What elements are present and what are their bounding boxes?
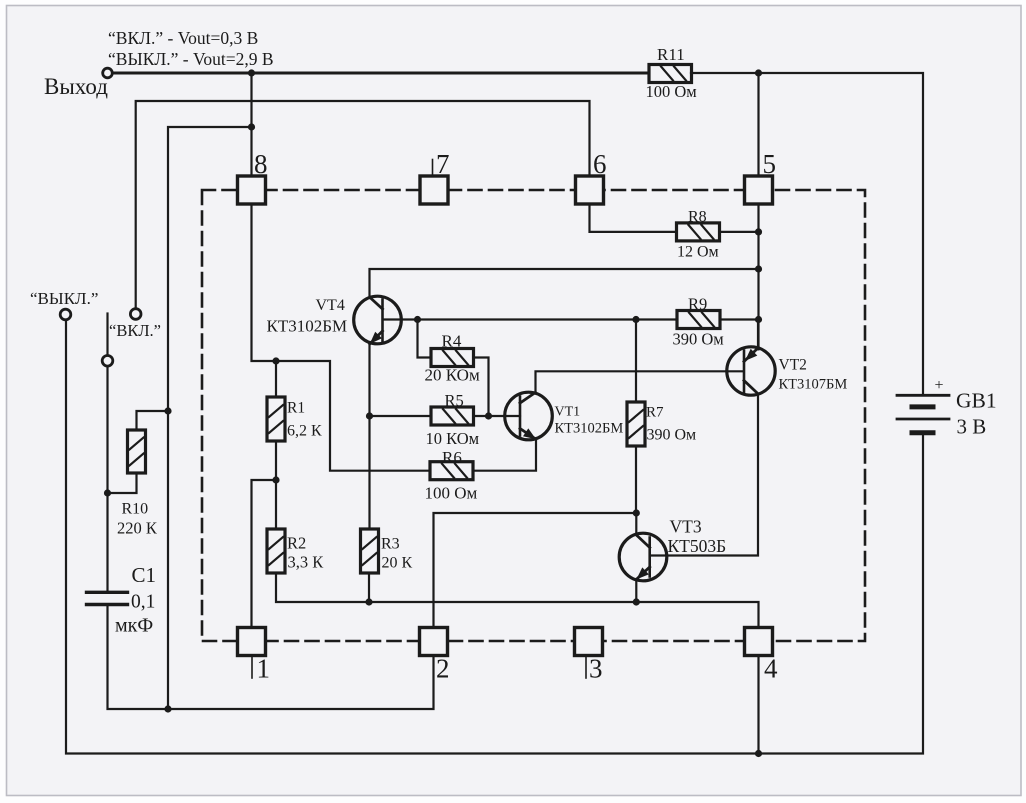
svg-text:+: + bbox=[935, 377, 944, 394]
svg-text:100 Ом: 100 Ом bbox=[646, 82, 698, 101]
transistor VT2 КТ3107БМ (PNP) bbox=[727, 347, 775, 395]
resistor R1 6,2 К vertical bbox=[267, 397, 285, 441]
wire VYKL2 stub above contact bbox=[106, 314, 108, 356]
svg-text:КТ3102БМ: КТ3102БМ bbox=[267, 317, 348, 336]
wire pin5 riser to output rail bbox=[757, 73, 759, 177]
resistor R4 20 КОм bbox=[431, 349, 474, 367]
output terminal circle bbox=[103, 68, 113, 78]
svg-text:“ВКЛ.”: “ВКЛ.” bbox=[109, 321, 161, 340]
wire R7 bottom riser to VT3 junction bbox=[635, 446, 637, 513]
wire R8 right to x=758 bbox=[720, 231, 759, 233]
resistor R10 220 К vertical bbox=[128, 430, 146, 473]
wire VT2 collector to VT3 base bbox=[650, 394, 758, 556]
svg-text:5: 5 bbox=[763, 149, 777, 179]
svg-text:2: 2 bbox=[436, 654, 450, 684]
wire R5 left from emitter riser bbox=[370, 415, 432, 417]
capacitor C1 0,1 мкФ bbox=[87, 591, 128, 594]
svg-text:R3: R3 bbox=[381, 536, 400, 553]
wire R5 right to VT1 base bbox=[474, 415, 521, 417]
svg-text:Выход: Выход bbox=[44, 74, 108, 99]
pin 5 square bbox=[745, 176, 773, 204]
svg-text:3 В: 3 В bbox=[957, 415, 987, 439]
pin 3 square bbox=[575, 628, 603, 656]
wire VKL switch to pin6 top (y=101) bbox=[136, 101, 590, 308]
switch contact VYKL circle bbox=[60, 309, 71, 320]
svg-text:4: 4 bbox=[764, 654, 778, 684]
pin 1 tick bbox=[251, 656, 253, 679]
svg-text:мкФ: мкФ bbox=[115, 615, 153, 637]
pin 2 square bbox=[420, 628, 448, 656]
svg-text:390 Ом: 390 Ом bbox=[647, 427, 697, 444]
pin 1 square bbox=[238, 628, 266, 656]
resistor R8 12 Ом bbox=[677, 223, 720, 241]
svg-text:12 Ом: 12 Ом bbox=[677, 244, 719, 261]
svg-text:7: 7 bbox=[436, 149, 450, 179]
wire VYKL2 contact down to C1 bbox=[106, 367, 108, 592]
wire pin8 bottom to R6 left bbox=[252, 204, 431, 471]
wire pin4 bottom to battery minus rail bbox=[757, 655, 759, 754]
svg-text:КТ503Б: КТ503Б bbox=[668, 536, 727, 556]
svg-text:8: 8 bbox=[254, 149, 268, 179]
svg-text:VT3: VT3 bbox=[670, 517, 702, 537]
wire battery minus rail y=752 bbox=[66, 320, 923, 754]
wire VT4 emitter riser to R3 top bbox=[368, 343, 370, 530]
wire pin5 bottom riser to VT2 emitter bbox=[757, 204, 759, 350]
wire output rail y=73 (left thick segment) bbox=[113, 72, 650, 75]
svg-text:R2: R2 bbox=[287, 534, 306, 553]
svg-text:C1: C1 bbox=[132, 563, 157, 587]
pin 6 square bbox=[576, 176, 604, 204]
wire pin8 riser from output rail bbox=[250, 73, 252, 177]
svg-text:100 Ом: 100 Ом bbox=[425, 484, 478, 503]
wire VT2 emitter riser bbox=[757, 320, 759, 350]
svg-text:R1: R1 bbox=[287, 400, 305, 417]
resistor R6 100 Ом bbox=[430, 462, 473, 480]
junction dots bbox=[248, 69, 255, 76]
svg-text:“ВЫКЛ.”: “ВЫКЛ.” bbox=[30, 289, 98, 308]
battery GB1 plates bbox=[897, 394, 949, 397]
svg-text:390 Ом: 390 Ом bbox=[673, 330, 725, 349]
svg-text:6: 6 bbox=[593, 149, 607, 179]
svg-text:КТ3102БМ: КТ3102БМ bbox=[555, 421, 624, 437]
wire R3 bottom stub bbox=[368, 573, 370, 602]
svg-text:VT1: VT1 bbox=[555, 405, 581, 420]
pin 3 tick bbox=[585, 656, 587, 679]
resistor R5 10 КОм bbox=[431, 407, 474, 425]
svg-text:R5: R5 bbox=[445, 391, 464, 410]
svg-text:0,1: 0,1 bbox=[131, 592, 155, 613]
wire pin2 riser and y=513 link to VT3 collector bbox=[434, 513, 637, 628]
switch contact VKL circle bbox=[130, 309, 141, 320]
svg-text:1: 1 bbox=[257, 654, 271, 684]
svg-text:3,3 К: 3,3 К bbox=[288, 553, 325, 572]
wire R7 top riser from R9 junction bbox=[635, 320, 637, 403]
pin 7 tick bbox=[432, 160, 434, 177]
svg-text:R11: R11 bbox=[657, 45, 685, 64]
wire R1 bottom to junction bbox=[275, 441, 277, 480]
svg-text:R9: R9 bbox=[688, 295, 707, 314]
wire R4 right drop to R5 junction bbox=[474, 358, 489, 417]
wire VT3 collector stub bbox=[635, 513, 637, 535]
wire VT3 emitter stub to ground rail bbox=[635, 580, 637, 603]
wire VT4 collector riser and rail y=269 bbox=[370, 269, 759, 298]
svg-text:R10: R10 bbox=[122, 501, 149, 518]
svg-text:6,2 К: 6,2 К bbox=[287, 423, 322, 440]
pin 8 square bbox=[238, 176, 266, 204]
svg-text:R8: R8 bbox=[688, 209, 707, 226]
switch contact lower circle bbox=[102, 356, 113, 367]
svg-text:“ВКЛ.” - Vout=0,3 В: “ВКЛ.” - Vout=0,3 В bbox=[108, 28, 258, 48]
resistor R11 100 Ом bbox=[649, 65, 692, 83]
svg-text:3: 3 bbox=[589, 654, 603, 684]
resistor R2 3,3 К vertical bbox=[267, 529, 285, 573]
wire pin6 bottom to R8 left bbox=[590, 204, 677, 232]
wire R4 left drop bbox=[418, 320, 432, 358]
wire VT1 collector riser to VT2 base bbox=[536, 371, 743, 393]
wire C1 bottom to rail y=709 to pin2 bottom bbox=[108, 607, 434, 709]
wire R10 bottom tap bbox=[108, 473, 137, 493]
resistor R9 390 Ом bbox=[677, 311, 720, 329]
svg-text:10 КОм: 10 КОм bbox=[426, 429, 480, 448]
resistor R3 20 К vertical bbox=[361, 529, 379, 573]
svg-text:VT2: VT2 bbox=[779, 357, 807, 374]
resistor R7 390 Ом vertical bbox=[627, 402, 645, 446]
wire R11 right to battery top corner bbox=[691, 73, 923, 394]
wire R2 bottom to ground rail y=602 to pin4 bbox=[276, 573, 759, 628]
IC dashed boundary box bbox=[202, 190, 865, 641]
wire R6 right to VT1 emitter riser bbox=[473, 439, 536, 471]
transistor VT3 КТ503Б bbox=[619, 533, 667, 581]
svg-text:220 К: 220 К bbox=[117, 519, 158, 538]
wire R1 top stub bbox=[275, 361, 277, 397]
svg-text:R6: R6 bbox=[442, 448, 462, 467]
svg-text:20 КОм: 20 КОм bbox=[425, 366, 480, 385]
pin 7 square bbox=[420, 176, 448, 204]
pin 4 square bbox=[745, 628, 773, 656]
svg-text:R7: R7 bbox=[646, 405, 664, 421]
wire junction to pin1 bbox=[252, 480, 277, 628]
wire R10 top tap bbox=[137, 411, 169, 430]
svg-text:VT4: VT4 bbox=[316, 297, 345, 314]
svg-text:GB1: GB1 bbox=[956, 389, 997, 413]
svg-text:R4: R4 bbox=[442, 332, 462, 351]
wire R9 right to x=758 bbox=[720, 318, 759, 320]
svg-text:20 К: 20 К bbox=[382, 555, 413, 572]
svg-text:“ВЫКЛ.” - Vout=2,9 В: “ВЫКЛ.” - Vout=2,9 В bbox=[108, 49, 274, 69]
transistor VT1 КТ3102БМ bbox=[505, 392, 553, 440]
wire VT4 base to R9 left bbox=[383, 318, 677, 320]
svg-text:КТ3107БМ: КТ3107БМ bbox=[779, 377, 848, 393]
wire R2 top stub bbox=[275, 480, 277, 529]
transistor VT4 КТ3102БМ bbox=[354, 296, 402, 344]
wire x=168 long riser from y=127 to bottom rail bbox=[168, 127, 252, 709]
